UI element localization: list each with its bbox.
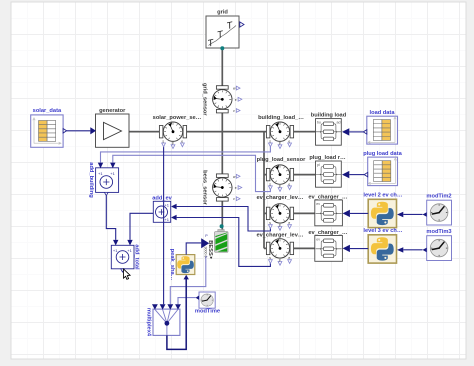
- input connectors add_ev: [171, 204, 177, 209]
- add_ev adder: [153, 201, 170, 222]
- svg-text:add_ev: add_ev: [152, 196, 172, 202]
- svg-text:ev_charger_…: ev_charger_…: [308, 195, 348, 201]
- bess_sensor: [209, 174, 236, 201]
- input connectors add_total: [113, 240, 118, 246]
- svg-text:p: p: [279, 258, 281, 262]
- sensor bottom pins: plug: [269, 182, 292, 191]
- svg-text:building load: building load: [311, 113, 347, 119]
- ev_charger box 2: [315, 236, 343, 262]
- sensor right pins: bess_sensor: [233, 174, 242, 201]
- svg-text:e: e: [288, 182, 290, 186]
- svg-text:e: e: [288, 221, 290, 225]
- sensor bottom pins: ev2: [269, 256, 292, 265]
- svg-text:ev: ev: [316, 238, 320, 242]
- svg-text:pl: pl: [317, 163, 320, 167]
- sensor bottom pins: ev1: [269, 221, 292, 230]
- svg-text:generator: generator: [99, 108, 126, 114]
- modTim2 clock: [427, 200, 452, 225]
- node: grid bottom: [220, 46, 224, 50]
- svg-text:+1: +1: [164, 217, 169, 222]
- generator: [96, 114, 130, 147]
- grid_sensor: [209, 86, 236, 113]
- wire: building sensor S -> add_building in1: [101, 147, 271, 163]
- modTime clock: [199, 292, 215, 308]
- svg-text:ev: ev: [316, 202, 320, 206]
- svg-text:plug load data: plug load data: [363, 151, 402, 157]
- solar_power_sensor: [159, 122, 186, 141]
- svg-text:plug_load r…: plug_load r…: [309, 155, 346, 161]
- node pin of grid (right): [240, 22, 244, 27]
- wire: modTime -> multiplex4 in4: [178, 298, 196, 305]
- svg-text:p: p: [279, 141, 281, 145]
- svg-text:+1: +1: [110, 171, 115, 176]
- wire: BESS SOC -> multiplex4 in3: [170, 258, 206, 304]
- output connector load data: [363, 130, 367, 134]
- svg-text:s: s: [269, 139, 271, 143]
- svg-text:+1: +1: [164, 203, 169, 208]
- plug_load_sensor: [266, 165, 293, 184]
- plug load data table: [368, 157, 398, 186]
- ev_charger_lev sensor 1: [266, 204, 293, 223]
- load data table: [367, 116, 398, 144]
- input connector building_load: [342, 128, 349, 135]
- svg-text:p: p: [172, 141, 174, 145]
- wire: ev sensor2 S -> add_ev in2: [177, 218, 271, 267]
- input connector ev_charger2: [343, 245, 350, 252]
- input connectors add_building: [98, 163, 103, 169]
- input connectors multiplex4: [152, 304, 158, 309]
- wire: multiplex4 out -> peak_shaving in (vector): [167, 279, 186, 349]
- input connector peak_shaving (bottom): [184, 275, 189, 280]
- svg-text:solar_power_se…: solar_power_se…: [153, 115, 202, 121]
- svg-text:grid_sensor: grid_sensor: [201, 83, 207, 116]
- sensor bottom pins: solar: [162, 139, 185, 148]
- wire: solar_data -> generator: [67, 130, 91, 132]
- building_load box: [316, 119, 342, 146]
- svg-text:building_load_…: building_load_…: [258, 115, 304, 121]
- wire: modTim3 -> level3: [403, 249, 422, 251]
- ev_charger box 1: [315, 200, 343, 226]
- svg-text:add_building: add_building: [88, 162, 94, 198]
- wire: level3 -> ev_charger2: [350, 248, 368, 250]
- wire: modTim2 -> level2: [403, 213, 422, 215]
- svg-text:plug_load_sensor: plug_load_sensor: [257, 157, 306, 163]
- sensor right pins: grid_sensor: [233, 86, 242, 113]
- svg-text:bess_sensor: bess_sensor: [201, 170, 207, 206]
- output connector modTime: [196, 296, 199, 300]
- add_total adder: [111, 245, 134, 272]
- svg-text:e: e: [235, 186, 237, 190]
- svg-text:s: s: [269, 256, 271, 260]
- wire: peak_shaving -> BESS P: [186, 243, 201, 255]
- output connector plug load data: [364, 172, 368, 176]
- svg-text:level 2 ev ch…: level 2 ev ch…: [363, 192, 403, 198]
- input connector ev_charger1: [343, 210, 350, 217]
- svg-text:ev_charger_lev…: ev_charger_lev…: [256, 232, 303, 238]
- svg-text:e: e: [288, 139, 290, 143]
- svg-text:p: p: [279, 184, 281, 188]
- wire: load data -> building_load: [349, 131, 363, 133]
- svg-text:ad: ad: [337, 121, 341, 125]
- svg-text:peak_sha…: peak_sha…: [169, 249, 175, 281]
- input connector BESS P: [201, 238, 209, 248]
- wire: sensor-to-load stubs: [293, 132, 315, 249]
- wire: generator output bus to building sensor: [129, 131, 270, 133]
- sensor bottom pins: building: [269, 139, 292, 148]
- svg-text:multiplex4: multiplex4: [146, 308, 152, 337]
- wire: add_building out -> add_total in1: [106, 196, 115, 240]
- modTim3 clock: [427, 236, 452, 261]
- svg-text:modTim3: modTim3: [426, 229, 451, 235]
- mouse cursor: [124, 269, 131, 279]
- node: battery top: [220, 224, 224, 228]
- input connector level2 python: [397, 212, 403, 217]
- level 3 ev charger python block: [368, 235, 396, 263]
- output connector solar_data: [63, 129, 67, 133]
- input connector plug_load: [342, 171, 349, 178]
- svg-text:e: e: [181, 139, 183, 143]
- svg-text:s: s: [269, 182, 271, 186]
- input connector level3 python: [397, 247, 403, 252]
- svg-text:ev_charger_…: ev_charger_…: [308, 230, 348, 236]
- svg-text:load data: load data: [370, 110, 396, 116]
- ev_charger_lev sensor 2: [266, 239, 293, 258]
- output connector modTim2: [423, 212, 427, 217]
- multiplex4: [153, 309, 180, 335]
- wire: ev sensor1 S -> add_ev in1: [177, 207, 271, 232]
- svg-text:modTim2: modTim2: [426, 193, 451, 199]
- svg-text:+1: +1: [113, 248, 118, 253]
- wire: right vertical bus to plug and ev sensors: [264, 132, 267, 249]
- solar_data table: [31, 115, 63, 147]
- svg-text:v: v: [233, 109, 235, 113]
- svg-text:level 3 ev ch…: level 3 ev ch…: [363, 228, 403, 234]
- svg-text:modTime: modTime: [195, 308, 220, 314]
- wire: solar sensor S -> multiplex4 in2: [163, 147, 165, 305]
- wire: grid vertical bus down to battery: [221, 48, 223, 230]
- svg-text:solar_data: solar_data: [33, 108, 62, 114]
- svg-text:grid: grid: [217, 10, 228, 16]
- wire: plug sensor S -> add_building in2: [113, 155, 271, 191]
- svg-text:+1: +1: [98, 171, 103, 176]
- peak_shaving python block: [176, 255, 195, 275]
- svg-text:e: e: [288, 256, 290, 260]
- svg-text:add_total: add_total: [133, 244, 139, 270]
- grid block U-grid: [206, 16, 239, 50]
- output connector modTim3: [423, 248, 427, 253]
- input connector generator: [90, 127, 96, 134]
- building_load_sensor: [266, 122, 293, 141]
- wire: add_ev out -> add_total in2: [130, 213, 153, 240]
- wire: level2 -> ev_charger1: [350, 212, 368, 214]
- svg-text:bu: bu: [317, 121, 321, 125]
- svg-text:s: s: [269, 221, 271, 225]
- svg-text:p: p: [279, 223, 281, 227]
- add_building adder: [96, 168, 119, 196]
- svg-text:v: v: [233, 197, 235, 201]
- plug_load box: [316, 161, 342, 187]
- level 2 ev charger python block: [368, 199, 396, 227]
- svg-text:s: s: [162, 139, 164, 143]
- svg-text:+1: +1: [127, 248, 132, 253]
- svg-text:e: e: [235, 98, 237, 102]
- svg-text:ev_charger_lev…: ev_charger_lev…: [256, 195, 303, 201]
- BESS battery: [215, 230, 228, 253]
- wire: plug load data -> plug_load: [349, 174, 364, 176]
